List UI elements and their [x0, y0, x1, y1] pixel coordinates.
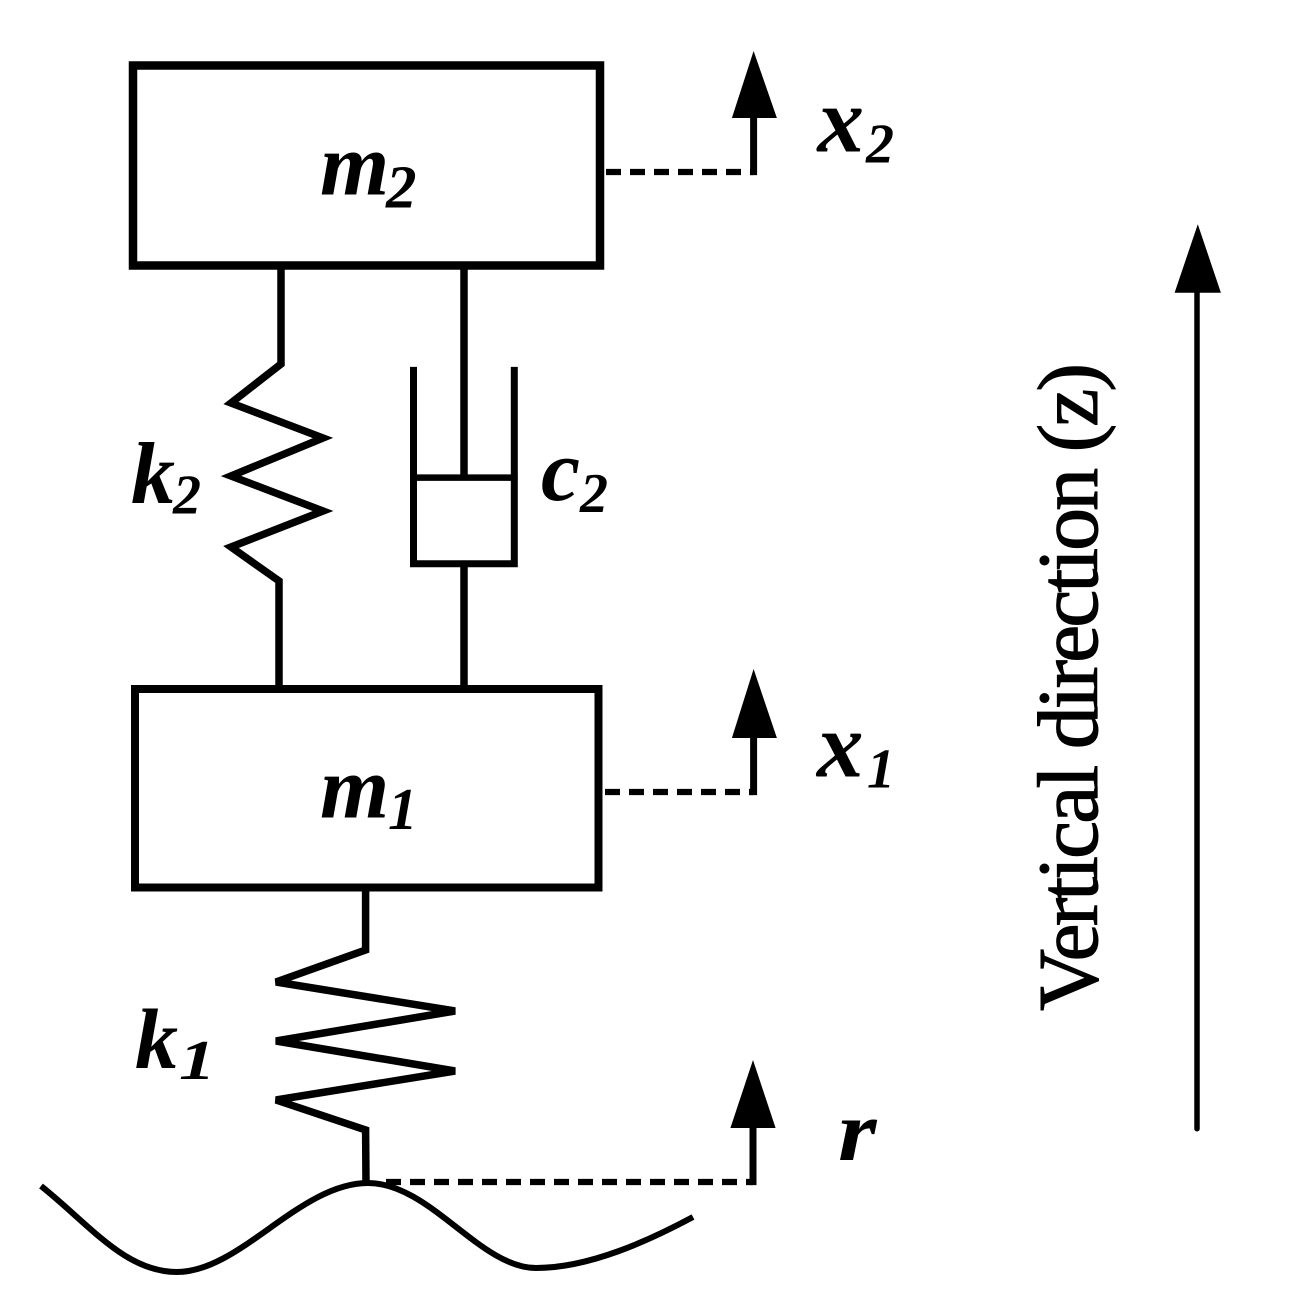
- svg-text:x: x: [815, 695, 864, 798]
- dashed reference line x1: [605, 789, 753, 795]
- svg-text:2: 2: [579, 463, 608, 525]
- label x1: [815, 695, 895, 801]
- dashed reference line x2: [606, 169, 753, 175]
- damper c2 cylinder: [414, 367, 515, 564]
- svg-text:1: 1: [179, 1030, 215, 1092]
- svg-text:k: k: [131, 426, 175, 523]
- vertical direction axis arrow: [1175, 224, 1221, 1128]
- svg-text:1: 1: [867, 739, 895, 801]
- mass m2 label: [320, 117, 417, 222]
- arrow x1: [732, 669, 777, 795]
- arrow x2: [732, 51, 777, 175]
- svg-text:2: 2: [385, 155, 417, 222]
- svg-text:Vertical direction (z): Vertical direction (z): [1020, 363, 1116, 1011]
- svg-text:r: r: [838, 1084, 877, 1180]
- arrow r: [730, 1060, 775, 1185]
- road surface wave: [41, 1183, 693, 1272]
- mass m1 box: [135, 689, 599, 888]
- spring k1: [276, 887, 455, 1183]
- svg-text:m: m: [320, 117, 389, 215]
- svg-text:k: k: [135, 991, 178, 1087]
- dashed reference line r: [386, 1179, 753, 1185]
- damper c2 lower rod: [460, 564, 468, 689]
- label k2: [131, 426, 201, 527]
- damper c2 piston plate: [410, 474, 518, 481]
- svg-text:m: m: [320, 740, 389, 838]
- damper c2 piston rod: [460, 266, 468, 478]
- label x2: [816, 70, 895, 176]
- svg-text:2: 2: [172, 465, 201, 527]
- mass m1 label: [320, 740, 418, 843]
- svg-text:x: x: [816, 70, 865, 173]
- svg-text:c: c: [541, 423, 580, 520]
- label k1: [135, 991, 215, 1092]
- mass m2 box: [133, 66, 600, 266]
- label c2: [541, 423, 608, 525]
- spring k2: [231, 266, 323, 689]
- svg-text:1: 1: [388, 776, 418, 842]
- svg-text:2: 2: [865, 114, 894, 176]
